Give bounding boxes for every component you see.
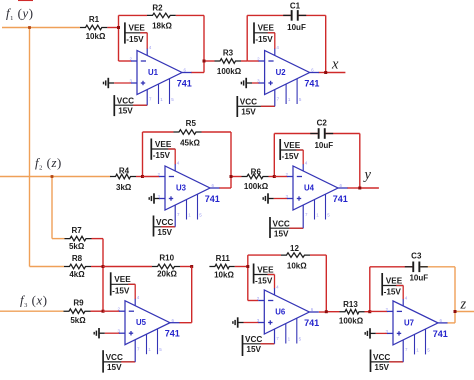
power VEE U2 bbox=[253, 22, 255, 43]
wire U6 feedback right vertical bbox=[325, 255, 327, 312]
capacitor C1 bbox=[283, 14, 291, 16]
op-amp U7 bbox=[393, 301, 438, 345]
pin 5 stub U5 bbox=[157, 329, 159, 354]
ground U6 bbox=[237, 317, 239, 327]
svg-text:12: 12 bbox=[290, 244, 299, 253]
wire U1 feedback top right bbox=[176, 14, 204, 16]
wire U2 output bbox=[319, 72, 326, 74]
pin 5 stub U3 bbox=[197, 194, 199, 219]
pin 4 stub U4 bbox=[302, 164, 304, 171]
svg-text:15V: 15V bbox=[118, 107, 133, 116]
wire U7 feedback top right (orange) bbox=[420, 266, 456, 268]
wire f2(z) input net (orange) bbox=[0, 176, 111, 178]
ground U1 bbox=[107, 78, 109, 88]
pin 1 stub U3 bbox=[186, 199, 188, 219]
wire VCC to U2 pin 7 bbox=[261, 105, 275, 107]
svg-text:VEE: VEE bbox=[114, 275, 131, 284]
svg-text:VCC: VCC bbox=[156, 218, 173, 227]
wire VEE to U6 pin 4 bbox=[268, 274, 275, 276]
svg-text:10uF: 10uF bbox=[314, 141, 333, 150]
svg-text:10kΩ: 10kΩ bbox=[287, 261, 307, 270]
node U3 output junction bbox=[230, 175, 233, 178]
pin 7 stub U1 bbox=[146, 90, 148, 106]
wire R1 to U1 input node bbox=[107, 27, 118, 29]
wire U6 inverting input bbox=[248, 300, 258, 302]
pin 1 stub U5 bbox=[146, 334, 148, 354]
svg-text:f2 (z): f2 (z) bbox=[35, 156, 62, 172]
wire R4 to U3 input node bbox=[136, 176, 143, 178]
wire ground to U3 + input bbox=[159, 198, 161, 200]
resistor R10 bbox=[152, 264, 180, 269]
pin 5 stub U7 bbox=[425, 329, 427, 354]
svg-text:18kΩ: 18kΩ bbox=[152, 22, 172, 31]
node R6 feedback junction bbox=[273, 175, 276, 178]
power VEE U7 bbox=[381, 273, 383, 296]
node R1 feedback junction bbox=[117, 26, 120, 29]
wire U1 inverting input bbox=[119, 60, 132, 62]
resistor R2 bbox=[147, 13, 176, 18]
svg-text:R13: R13 bbox=[343, 300, 358, 309]
wire ground to U5 + input bbox=[105, 332, 120, 334]
svg-text:VEE: VEE bbox=[257, 265, 274, 274]
svg-text:R10: R10 bbox=[159, 253, 174, 262]
node U4 output junction bbox=[358, 187, 361, 190]
wire ground to U4 + input bbox=[274, 198, 288, 200]
wire f3(x) input net (orange) bbox=[0, 310, 64, 312]
wire VCC to U3 pin 7 bbox=[161, 226, 175, 228]
wire U7 feedback top left bbox=[370, 266, 413, 268]
node U6 output junction bbox=[325, 310, 328, 313]
wire U6 output bbox=[319, 311, 327, 313]
wire U2 inverting input bbox=[247, 60, 259, 62]
resistor R4 bbox=[110, 174, 136, 179]
ground U5 bbox=[98, 328, 100, 338]
power VCC U4 bbox=[269, 217, 271, 238]
svg-text:-15V: -15V bbox=[153, 151, 171, 160]
pin 7 stub U6 bbox=[274, 329, 276, 344]
wire U3 feedback top left bbox=[143, 131, 174, 133]
svg-text:5kΩ: 5kΩ bbox=[70, 316, 86, 325]
pin 7 stub U4 bbox=[302, 205, 304, 228]
svg-text:45kΩ: 45kΩ bbox=[180, 138, 200, 147]
wire U2 feedback top left bbox=[247, 14, 291, 16]
svg-text:15V: 15V bbox=[374, 363, 389, 372]
pin 4 stub U3 bbox=[174, 164, 176, 171]
svg-text:VCC: VCC bbox=[245, 335, 262, 344]
wire output y bbox=[360, 187, 379, 189]
capacitor C3 bbox=[405, 266, 413, 268]
svg-text:15V: 15V bbox=[107, 363, 122, 372]
svg-text:741: 741 bbox=[205, 194, 220, 204]
wire U1 output to R3 bbox=[204, 60, 215, 62]
pin 1 stub U6 bbox=[285, 323, 287, 343]
wire R9 to bus bbox=[91, 310, 104, 312]
op-amp U6 bbox=[264, 290, 309, 334]
svg-text:y: y bbox=[363, 167, 372, 183]
wire U3 output to R6 bbox=[231, 176, 242, 178]
wire f2 vertical bbox=[51, 177, 53, 239]
ground U3 bbox=[153, 193, 155, 203]
resistor R8 bbox=[64, 264, 91, 269]
op-amp U4 bbox=[293, 166, 338, 210]
svg-text:x: x bbox=[331, 57, 339, 73]
wire VEE to U5 pin 4 bbox=[128, 283, 135, 285]
svg-text:R7: R7 bbox=[71, 226, 82, 235]
wire U3 inverting input bbox=[143, 176, 160, 178]
pin 5 stub U1 bbox=[169, 79, 171, 104]
svg-text:R3: R3 bbox=[223, 48, 234, 57]
wire ground to U2 + input bbox=[252, 82, 259, 84]
wire R13 to U7 input node bbox=[365, 311, 370, 313]
svg-text:R9: R9 bbox=[73, 298, 84, 307]
svg-text:U7: U7 bbox=[404, 318, 414, 327]
op-amp U1 bbox=[137, 51, 182, 95]
svg-text:U2: U2 bbox=[276, 68, 287, 77]
svg-text:15V: 15V bbox=[157, 228, 172, 237]
wire VCC to U1 pin 7 bbox=[133, 104, 147, 106]
svg-text:R5: R5 bbox=[186, 119, 197, 128]
power VCC U7 bbox=[370, 350, 372, 373]
capacitor C2 bbox=[310, 133, 318, 135]
wire U4 feedback top left bbox=[274, 133, 318, 135]
svg-text:-15V: -15V bbox=[255, 277, 273, 286]
svg-text:10uF: 10uF bbox=[287, 23, 306, 32]
power VCC U3 bbox=[153, 216, 155, 237]
svg-text:4kΩ: 4kΩ bbox=[69, 270, 85, 279]
wire bus to R10 bbox=[103, 266, 152, 268]
wire U6 feedback top right bbox=[310, 254, 326, 256]
wire R10 to output node bbox=[180, 266, 192, 268]
wire U1 feedback left vertical bbox=[118, 15, 120, 61]
wire U3 feedback left vertical bbox=[142, 132, 144, 177]
wire f1 vertical bus bbox=[29, 28, 31, 267]
svg-text:15V: 15V bbox=[241, 108, 256, 117]
wire VCC to U7 pin 7 bbox=[389, 361, 403, 363]
wire f1(y) input net (orange) bbox=[2, 27, 80, 29]
svg-text:C1: C1 bbox=[290, 1, 301, 10]
resistor R3 bbox=[215, 59, 242, 64]
wire U4 inverting input bbox=[274, 176, 287, 178]
wire VCC to U4 pin 7 bbox=[289, 227, 303, 229]
svg-text:U6: U6 bbox=[275, 308, 286, 317]
pin 5 stub U4 bbox=[325, 194, 327, 219]
power VEE U1 bbox=[124, 22, 126, 43]
wire VEE to U4 pin 4 bbox=[296, 149, 303, 151]
wire U6 output to R13 bbox=[326, 311, 339, 313]
pin 4 stub U5 bbox=[134, 299, 136, 306]
wire VCC to U6 pin 7 bbox=[261, 343, 275, 345]
svg-text:R6: R6 bbox=[251, 167, 262, 176]
svg-text:-15V: -15V bbox=[282, 152, 300, 161]
wire U1 output bbox=[191, 72, 204, 74]
svg-text:VCC: VCC bbox=[106, 353, 123, 362]
svg-text:-15V: -15V bbox=[126, 35, 144, 44]
wire U5 output vertical bbox=[191, 267, 193, 323]
wire U4 output bbox=[347, 187, 360, 189]
svg-text:U5: U5 bbox=[136, 318, 147, 327]
svg-text:-15V: -15V bbox=[384, 288, 402, 297]
wire U7 output bbox=[447, 322, 455, 324]
svg-text:R1: R1 bbox=[89, 15, 100, 24]
wire f1 to R8 bbox=[30, 266, 65, 268]
svg-text:3kΩ: 3kΩ bbox=[116, 183, 132, 192]
wire U7 feedback left vertical bbox=[369, 267, 371, 312]
pin 7 stub U3 bbox=[174, 205, 176, 227]
svg-text:15V: 15V bbox=[246, 345, 261, 354]
svg-text:U1: U1 bbox=[148, 68, 159, 77]
wire U3 output bbox=[219, 187, 231, 189]
wire U2 feedback top right bbox=[298, 14, 326, 16]
svg-text:U3: U3 bbox=[176, 184, 187, 193]
wire U4 feedback top right bbox=[325, 133, 360, 135]
wire U3 feedback right vertical bbox=[230, 132, 232, 188]
svg-text:-15V: -15V bbox=[112, 286, 130, 295]
resistor R6 bbox=[242, 174, 269, 179]
svg-text:5kΩ: 5kΩ bbox=[69, 242, 85, 251]
svg-text:VEE: VEE bbox=[155, 140, 172, 149]
wire f2 to R7 bbox=[52, 238, 65, 240]
wire U5 output bbox=[179, 322, 192, 324]
wire U1 feedback top left bbox=[119, 14, 148, 16]
wire R6 to U4 input node bbox=[269, 176, 275, 178]
node R11 feedback junction bbox=[246, 265, 249, 268]
pin 1 stub U2 bbox=[285, 84, 287, 104]
power VCC U5 bbox=[102, 350, 104, 372]
pin 7 stub U7 bbox=[402, 340, 404, 362]
wire U6 feedback left vertical bbox=[247, 255, 249, 300]
op-amp U2 bbox=[265, 51, 310, 95]
svg-text:10uF: 10uF bbox=[409, 274, 428, 283]
node R4 feedback junction bbox=[141, 175, 144, 178]
resistor R1 bbox=[80, 25, 107, 30]
power VCC U1 bbox=[113, 95, 115, 116]
resistor R13 bbox=[340, 309, 365, 314]
svg-text:100kΩ: 100kΩ bbox=[339, 317, 364, 326]
ground U2 bbox=[245, 78, 247, 88]
wire U2 feedback left vertical bbox=[246, 15, 248, 61]
svg-text:15V: 15V bbox=[274, 230, 289, 239]
wire R11 to U6 input node bbox=[235, 266, 248, 268]
pin 5 stub U2 bbox=[296, 79, 298, 104]
resistor R7 bbox=[65, 236, 92, 241]
node R8 bus junction bbox=[102, 265, 105, 268]
svg-text:VEE: VEE bbox=[284, 141, 301, 150]
pin 4 stub U7 bbox=[402, 299, 404, 306]
svg-text:741: 741 bbox=[304, 318, 319, 328]
power VCC U2 bbox=[236, 96, 238, 117]
ground U7 bbox=[369, 328, 371, 338]
wire VEE to U1 pin 4 bbox=[140, 32, 147, 34]
svg-text:741: 741 bbox=[304, 79, 319, 89]
svg-text:C2: C2 bbox=[317, 118, 328, 127]
power VEE U4 bbox=[279, 139, 281, 160]
wire VEE to U3 pin 4 bbox=[168, 148, 175, 150]
wire R3 to U2 input node bbox=[241, 60, 247, 62]
svg-text:VCC: VCC bbox=[117, 96, 134, 105]
pin 7 stub U5 bbox=[134, 340, 136, 362]
wire U2 feedback right vertical bbox=[325, 15, 327, 72]
wire U4 feedback right vertical bbox=[359, 134, 361, 189]
svg-text:VEE: VEE bbox=[386, 276, 403, 285]
node f1 junction bbox=[28, 26, 31, 29]
svg-text:741: 741 bbox=[165, 329, 180, 339]
resistor R12 bbox=[281, 253, 310, 258]
resistor R11 bbox=[209, 264, 234, 269]
svg-text:R11: R11 bbox=[216, 254, 231, 263]
wire U1 feedback right vertical bbox=[203, 15, 205, 72]
svg-text:R4: R4 bbox=[119, 166, 130, 175]
svg-text:VEE: VEE bbox=[129, 24, 146, 33]
wire VCC to U5 pin 7 bbox=[121, 361, 135, 363]
wire U4 feedback left vertical bbox=[273, 134, 275, 177]
svg-text:741: 741 bbox=[433, 329, 448, 339]
power VCC U6 bbox=[242, 335, 244, 356]
svg-text:-15V: -15V bbox=[255, 35, 273, 44]
wire R7 to bus bbox=[92, 238, 104, 240]
pin 1 stub U7 bbox=[414, 334, 416, 354]
wire R7/R8/R9 bus vertical bbox=[102, 239, 104, 312]
op-amp U5 bbox=[125, 301, 170, 345]
op-amp U3 bbox=[165, 166, 210, 210]
svg-text:10kΩ: 10kΩ bbox=[86, 32, 106, 41]
wire U5 inverting input bbox=[103, 310, 120, 312]
pin 7 stub U2 bbox=[274, 90, 276, 107]
svg-text:R2: R2 bbox=[152, 4, 163, 13]
svg-text:VCC: VCC bbox=[240, 97, 257, 106]
stray wire top-left bbox=[18, 0, 33, 2]
node U7 output junction bbox=[454, 310, 457, 313]
wire R8 to bus bbox=[91, 266, 103, 268]
svg-text:U4: U4 bbox=[304, 184, 315, 193]
wire U6 feedback top left bbox=[248, 254, 281, 256]
svg-text:R8: R8 bbox=[72, 254, 83, 263]
wire VEE to U7 pin 4 bbox=[396, 285, 403, 287]
svg-text:10kΩ: 10kΩ bbox=[214, 271, 234, 280]
wire U3 feedback top right bbox=[202, 131, 232, 133]
svg-text:20kΩ: 20kΩ bbox=[157, 269, 177, 278]
pin 4 stub U6 bbox=[274, 288, 276, 295]
svg-text:VCC: VCC bbox=[373, 353, 390, 362]
pin 1 stub U4 bbox=[314, 199, 316, 219]
wire output z bbox=[455, 311, 474, 313]
wire ground to U7 + input bbox=[376, 332, 388, 334]
wire U7 inverting input bbox=[370, 310, 388, 312]
node R13 feedback junction bbox=[368, 310, 371, 313]
wire U7 feedback right vertical (orange) bbox=[454, 267, 456, 323]
svg-text:100kΩ: 100kΩ bbox=[217, 67, 242, 76]
wire ground to U1 + input bbox=[114, 82, 131, 84]
wire VEE to U2 pin 4 bbox=[268, 32, 275, 34]
resistor R9 bbox=[64, 309, 91, 314]
svg-text:VCC: VCC bbox=[273, 219, 290, 228]
svg-text:741: 741 bbox=[333, 194, 348, 204]
power VEE U3 bbox=[150, 139, 152, 160]
ground U4 bbox=[267, 193, 269, 203]
svg-text:741: 741 bbox=[177, 79, 192, 89]
wire ground to U6 + input bbox=[244, 322, 259, 324]
node R10 output junction bbox=[190, 265, 193, 268]
node U2 output junction bbox=[324, 71, 327, 74]
svg-text:VEE: VEE bbox=[258, 24, 275, 33]
pin 5 stub U6 bbox=[296, 318, 298, 343]
pin 1 stub U1 bbox=[158, 84, 160, 104]
svg-text:C3: C3 bbox=[411, 252, 422, 261]
svg-text:100kΩ: 100kΩ bbox=[244, 182, 269, 191]
power VEE U6 bbox=[253, 264, 255, 284]
wire output x bbox=[326, 72, 346, 74]
resistor R5 bbox=[174, 130, 202, 135]
node R9 junction bbox=[102, 310, 105, 313]
power VEE U5 bbox=[110, 272, 112, 295]
pin 4 stub U1 bbox=[146, 49, 148, 56]
pin 4 stub U2 bbox=[274, 49, 276, 56]
node f2 junction bbox=[51, 175, 54, 178]
svg-text:z: z bbox=[460, 297, 467, 313]
node U1 output junction bbox=[203, 60, 206, 63]
